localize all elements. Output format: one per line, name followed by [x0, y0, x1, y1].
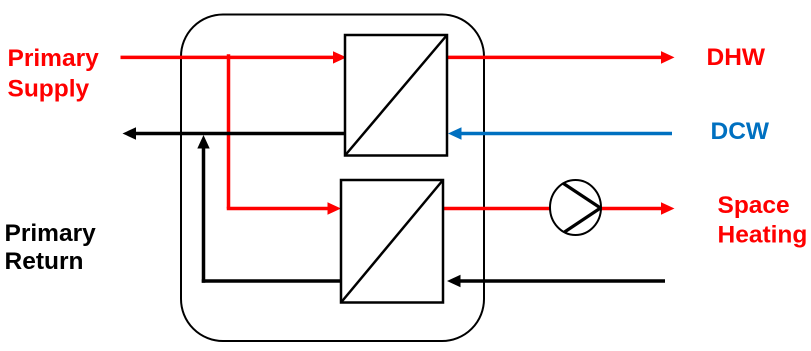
label: Primary Return	[5, 220, 97, 275]
svg-text:Return: Return	[5, 248, 84, 275]
svg-text:Primary: Primary	[8, 45, 100, 72]
wire: DCW blue line into HX1	[448, 127, 672, 139]
label: Space Heating	[718, 192, 808, 249]
wire: black return from HX2 left, up to primary return line	[197, 135, 341, 283]
heat exchanger HX1 (DHW)	[345, 35, 447, 156]
wire: space heating red line from HX2 through pump to label	[443, 202, 675, 215]
wire: primary return black line out of HX1 to left arrow	[123, 127, 346, 139]
heat exchanger HX2 (space heating)	[341, 180, 443, 303]
svg-text:Space: Space	[718, 192, 790, 219]
wire: space heating return black line into HX2 right	[447, 275, 665, 287]
wire: primary supply red line into HX1	[121, 51, 347, 63]
svg-text:Primary: Primary	[5, 220, 97, 247]
pump P1 (circle with open triangle)	[550, 180, 601, 235]
label: DHW	[707, 44, 766, 71]
svg-text:Heating: Heating	[718, 222, 808, 249]
label: DCW	[711, 118, 770, 145]
label: Primary Supply	[8, 45, 100, 102]
wire: red branch down from supply to HX2	[227, 54, 341, 215]
HIU enclosure (rounded rectangle)	[181, 15, 484, 342]
svg-text:DHW: DHW	[707, 44, 766, 71]
wire: DHW red line from HX1 to label	[447, 51, 675, 64]
svg-text:DCW: DCW	[711, 118, 770, 145]
svg-text:Supply: Supply	[8, 75, 90, 102]
